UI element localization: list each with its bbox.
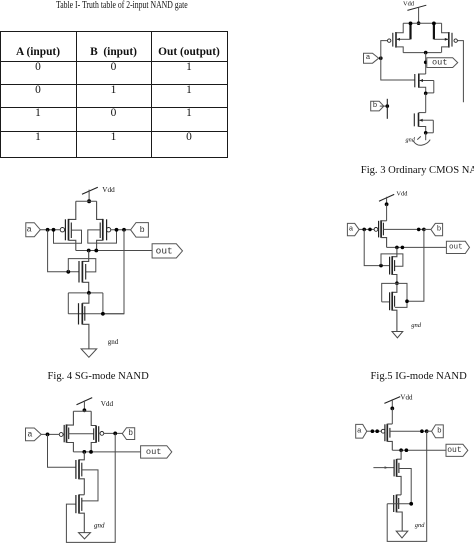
fig7 output port out bbox=[446, 444, 468, 456]
fig4 Vdd supply slash bbox=[82, 187, 98, 194]
fig6 wire N2 drain lead bbox=[79, 494, 84, 496]
fig4 wire N1 gate loop bbox=[68, 259, 96, 272]
fig7 node Vdd junction bbox=[390, 407, 394, 411]
fig7 wire a lead bbox=[367, 430, 382, 432]
fig3 wire Vdd stub bbox=[418, 7, 420, 23]
fig3 wire b lead bbox=[380, 105, 388, 107]
nmos N2 (fig4 lower pull-down, gate=b) bbox=[79, 303, 89, 349]
fig6 node out junction 1 bbox=[82, 450, 86, 454]
fig5 gnd label bbox=[411, 322, 422, 329]
fig5 node a junction 2 bbox=[368, 228, 372, 232]
caption Fig. 5 bbox=[371, 371, 467, 382]
fig6 wire b dropper to N2 gate bbox=[66, 433, 115, 542]
fig5 node out junction 2 bbox=[401, 246, 405, 250]
fig4 wire P1 backgate tie bbox=[54, 230, 82, 243]
fig6 output port out bbox=[141, 446, 172, 458]
fig5 wire a dropper to N1 gate bbox=[364, 229, 389, 265]
fig5 wire Vdd stub bbox=[386, 197, 388, 205]
svg-text:b: b bbox=[437, 427, 442, 435]
fig5 node a junction 1 bbox=[362, 228, 366, 232]
fig3 Vdd label bbox=[403, 1, 415, 8]
fig5 wire Vdd to P1 bbox=[386, 204, 388, 221]
svg-text:gnd: gnd bbox=[108, 338, 119, 346]
nmos N1 (fig7 upper pull-down) bbox=[394, 459, 401, 495]
fig4 wire P2 source lead bbox=[97, 201, 103, 219]
pmos P2 (fig6 right, gate=b) bbox=[91, 426, 104, 452]
fig6 Vdd supply slash bbox=[77, 398, 93, 405]
fig4 gnd label bbox=[108, 338, 119, 346]
svg-text:out: out bbox=[449, 243, 463, 251]
fig4 wire a lead bbox=[40, 229, 60, 231]
fig3 wire Vdd rail bbox=[403, 22, 441, 24]
fig6 wire out rail bbox=[73, 451, 140, 453]
fig5 wire N1 drain lead bbox=[392, 247, 397, 256]
caption Fig. 3 bbox=[361, 165, 474, 176]
fig4 wire b dropper to N2 bbox=[103, 230, 124, 314]
fig4 node mid junction bbox=[87, 291, 91, 295]
fig3 wire P1 bulk lead (thick) bbox=[409, 22, 413, 40]
fig7 wire N2 drain lead bbox=[397, 494, 402, 496]
svg-text:out: out bbox=[156, 245, 173, 256]
table title bbox=[56, 0, 188, 11]
fig6 wire N1 drain lead bbox=[79, 452, 84, 460]
fig5 node b junction 2 bbox=[422, 228, 426, 232]
fig5 node Vdd junction bbox=[385, 202, 389, 206]
pmos P1 (fig5, front gate=a back gate=b) bbox=[374, 220, 387, 247]
fig6 node out junction 2 bbox=[89, 450, 93, 454]
fig4 wire Vdd rail bbox=[76, 200, 97, 202]
fig5 node out junction 1 bbox=[395, 246, 399, 250]
svg-text:b: b bbox=[128, 429, 133, 438]
fig6 wire Vdd rail bbox=[73, 410, 91, 411]
nmos N2 (fig5 lower pull-down) bbox=[390, 292, 397, 332]
fig7 wire Vdd stub bbox=[391, 399, 393, 408]
fig5 wire b lead bbox=[424, 228, 431, 230]
fig5 wire N2 gate stub bbox=[382, 301, 390, 303]
fig3 node N2 source junction bbox=[424, 131, 428, 135]
fig4 node out junction 1 bbox=[87, 249, 91, 253]
svg-text:gnd: gnd bbox=[94, 522, 105, 530]
fig4 wire b lead bbox=[111, 229, 131, 231]
svg-text:b: b bbox=[373, 102, 378, 110]
fig5 wire N1 gate loop bbox=[381, 254, 403, 266]
svg-text:a: a bbox=[27, 225, 32, 235]
fig5 wire N2 gate loop bbox=[382, 283, 407, 307]
fig4 wire N2 gate loop right bbox=[102, 293, 104, 314]
fig4 node b junction 1 bbox=[115, 228, 119, 232]
table header Out (output) bbox=[151, 46, 227, 58]
fig4 wire P2 backgate tie bbox=[88, 230, 117, 243]
pmos P1 (fig7, front gate=a back gate=b) bbox=[381, 424, 392, 450]
pmos P1 (fig3 left pull-up) bbox=[388, 23, 411, 52]
fig6 gnd label bbox=[94, 522, 105, 530]
svg-text:a: a bbox=[366, 54, 371, 62]
fig6 input port b bbox=[122, 428, 134, 440]
fig4 ground symbol bbox=[81, 349, 97, 357]
table I frame and grid bbox=[0, 0, 474, 1]
fig7 node a junction 2 bbox=[375, 429, 379, 433]
fig3 wire b hanging gate line bbox=[386, 99, 388, 119]
truth table data rows bbox=[0, 61, 76, 73]
fig3 node a junction bbox=[379, 56, 383, 60]
fig7 gnd label bbox=[415, 522, 425, 529]
fig4 node a junction 2 bbox=[52, 228, 56, 232]
fig5 wire out rail bbox=[387, 246, 447, 248]
svg-text:out: out bbox=[432, 58, 447, 68]
svg-text:Vdd: Vdd bbox=[101, 400, 114, 408]
fig3 wire a riser to P1 gate bbox=[381, 41, 388, 59]
fig5 node N1-N2 junction bbox=[395, 281, 399, 285]
fig4 node N1 gate junction bbox=[66, 270, 70, 274]
fig3 wire gnd tail bbox=[425, 133, 427, 140]
fig4 wire N2 drain lead bbox=[82, 293, 89, 303]
svg-text:out: out bbox=[146, 447, 162, 457]
fig3 wire common drain rail bbox=[403, 52, 441, 54]
nmos N1 (fig6 upper pull-down, gate=a) bbox=[76, 460, 84, 495]
nmos N1 (fig3 upper pull-down) bbox=[415, 74, 434, 94]
fig5 output port out bbox=[446, 241, 469, 253]
fig7 wire N1 backgate loop bbox=[399, 469, 411, 504]
svg-text:Vdd: Vdd bbox=[102, 186, 115, 194]
fig7 wire b dropper bbox=[387, 431, 427, 541]
fig4 wire N2 gate rail bbox=[68, 313, 124, 315]
fig3 node out junction bbox=[424, 61, 428, 65]
fig6 node b junction bbox=[113, 432, 117, 436]
fig6 Vdd label bbox=[101, 400, 114, 408]
fig5 wire b dropper to N2 bbox=[407, 229, 424, 301]
fig5 node N2 b junction bbox=[405, 299, 409, 303]
fig6 wire N1 backgate loop bbox=[82, 470, 98, 501]
fig4 input port a bbox=[26, 223, 41, 237]
fig7 wire b lead bbox=[427, 430, 432, 432]
fig7 node N2 gate junction bbox=[409, 502, 413, 506]
table header A (input) bbox=[0, 46, 76, 58]
fig4 node N2 gate junction bbox=[101, 312, 105, 316]
fig4 wire P1 source lead bbox=[69, 201, 76, 219]
fig7 input port a bbox=[356, 424, 367, 438]
fig6 wire P1 source lead bbox=[67, 411, 74, 425]
fig7 node a junction 1 bbox=[371, 429, 375, 433]
fig7 wire out rail bbox=[392, 449, 446, 451]
fig5 Vdd supply slash bbox=[379, 194, 394, 201]
fig3 wire P2 gate to right rail bbox=[457, 41, 463, 103]
fig3 node drain junction bbox=[424, 51, 428, 55]
fig3 gnd label bbox=[406, 136, 416, 143]
fig3 input port a bbox=[364, 53, 379, 63]
fig7 node b junction 2 bbox=[425, 429, 429, 433]
fig6 input port a bbox=[26, 428, 42, 441]
fig7 node out junction 2 bbox=[405, 448, 409, 452]
fig7 wire N2 gate rail bbox=[387, 503, 411, 505]
fig5 wire P1 backgate to b bbox=[383, 228, 424, 230]
fig4 wire mid rail bbox=[68, 292, 103, 294]
fig3 node N1 source junction bbox=[424, 92, 428, 96]
pmos P1 (fig6 left, gate=a) bbox=[59, 424, 73, 452]
fig5 Vdd label bbox=[396, 190, 408, 197]
fig6 node Vdd junction bbox=[83, 408, 87, 412]
fig6 node a junction bbox=[46, 433, 50, 437]
fig4 node out junction 2 bbox=[94, 249, 98, 253]
nmos N2 (fig6 lower pull-down, gate=b) bbox=[76, 495, 84, 533]
fig6 wire Vdd stub bbox=[83, 400, 85, 410]
fig5 wire N2 drain lead bbox=[392, 283, 397, 292]
fig4 Vdd label bbox=[102, 186, 115, 194]
fig7 wire N1 dangling gate lead bbox=[373, 466, 394, 469]
fig3 input port b bbox=[371, 101, 384, 111]
fig3 wire N1-N2 link bbox=[425, 93, 427, 112]
pmos P2 (fig4 right, gate=b) bbox=[97, 219, 111, 251]
fig7 ground symbol bbox=[396, 531, 408, 538]
pmos P1 (fig4 left, gate=a) bbox=[60, 219, 76, 251]
fig4 node b junction 2 bbox=[122, 228, 126, 232]
caption Fig. 4 bbox=[48, 371, 149, 382]
svg-text:gnd: gnd bbox=[415, 522, 425, 529]
fig3 wire P2 bulk lead (thick) bbox=[432, 22, 436, 40]
fig4 input port b bbox=[131, 223, 149, 238]
svg-text:Vdd: Vdd bbox=[400, 394, 413, 402]
nmos N1 (fig4 upper pull-down, gate=a) bbox=[79, 261, 89, 293]
table header B (input) bbox=[76, 46, 151, 58]
fig7 wire Vdd to P1 bbox=[391, 408, 393, 424]
svg-text:b: b bbox=[140, 225, 145, 235]
pmos P2 (fig3 right pull-up) bbox=[434, 23, 458, 52]
fig3 wire a to riser bbox=[379, 57, 381, 59]
fig3 Vdd supply slash bbox=[407, 5, 426, 10]
svg-text:Vdd: Vdd bbox=[396, 190, 408, 197]
fig4 wire N1 drain lead bbox=[82, 251, 88, 262]
fig5 node N1 gate junction bbox=[379, 264, 383, 268]
fig7 Vdd label bbox=[400, 394, 413, 402]
fig3 node Vdd junction bbox=[417, 21, 421, 25]
fig3 ground symbol bbox=[413, 136, 430, 145]
fig5 input port a bbox=[347, 223, 359, 235]
fig7 wire P1 backgate to b bbox=[390, 430, 427, 432]
fig3 node b junction bbox=[386, 104, 390, 108]
fig5 node b junction 1 bbox=[417, 228, 421, 232]
nmos N2 (fig7 lower pull-down) bbox=[394, 495, 403, 531]
fig7 wire N1 drain lead bbox=[397, 450, 402, 459]
fig3 wire out stem bbox=[425, 53, 427, 74]
nmos N1 (fig5 upper pull-down) bbox=[390, 256, 397, 283]
fig6 wire a dropper to N1 gate bbox=[48, 434, 76, 467]
fig6 wire P2 source lead bbox=[91, 411, 96, 425]
svg-text:a: a bbox=[27, 429, 32, 439]
nmos N2 (fig3 lower pull-down) bbox=[414, 113, 433, 133]
fig4 wire N2 gate loop left bbox=[67, 293, 69, 314]
fig3 output port out bbox=[427, 58, 458, 68]
fig4 wire out rail bbox=[76, 250, 152, 252]
fig4 output port out bbox=[152, 244, 182, 258]
fig6 ground symbol bbox=[79, 533, 91, 539]
fig3 wire a dropper to N1 gate bbox=[381, 58, 415, 80]
svg-text:Vdd: Vdd bbox=[403, 1, 415, 8]
fig4 node Vdd junction bbox=[87, 199, 91, 203]
fig6 wire backgate tie P1-P2 bbox=[69, 433, 94, 435]
fig5 wire a lead bbox=[359, 228, 374, 230]
fig6 wire a lead bbox=[41, 433, 59, 435]
fig5 input port b bbox=[431, 223, 443, 235]
svg-text:a: a bbox=[349, 226, 354, 234]
fig7 node b junction 1 bbox=[420, 429, 424, 433]
fig5 ground symbol bbox=[392, 332, 403, 338]
fig7 input port b bbox=[432, 425, 444, 438]
fig4 node a junction 1 bbox=[46, 228, 50, 232]
fig4 wire Vdd stub bbox=[88, 190, 90, 202]
svg-text:b: b bbox=[437, 226, 442, 234]
fig7 Vdd supply slash bbox=[384, 397, 400, 404]
svg-text:a: a bbox=[357, 427, 362, 435]
fig4 wire a dropper to N1 gate bbox=[48, 230, 79, 272]
svg-text:out: out bbox=[447, 446, 461, 455]
fig7 node out junction 1 bbox=[399, 448, 403, 452]
svg-text:gnd: gnd bbox=[411, 322, 422, 329]
fig6 wire b lead bbox=[104, 432, 123, 434]
